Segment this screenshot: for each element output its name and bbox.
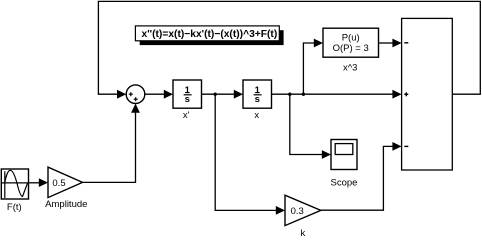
svg-text:0.3: 0.3	[291, 206, 304, 217]
svg-text:F(t): F(t)	[7, 202, 22, 213]
svg-text:Scope: Scope	[331, 177, 358, 188]
svg-text:x: x	[254, 110, 259, 121]
svg-text:x': x'	[183, 110, 190, 121]
svg-text:O(P) = 3: O(P) = 3	[333, 43, 369, 54]
svg-text:s: s	[255, 94, 260, 105]
svg-text:0.5: 0.5	[52, 178, 65, 189]
svg-text:x^3: x^3	[343, 62, 358, 73]
svg-text:Amplitude: Amplitude	[45, 199, 87, 210]
svg-text:x''(t)=x(t)−kx'(t)−(x(t))^3+F(: x''(t)=x(t)−kx'(t)−(x(t))^3+F(t)	[142, 29, 278, 40]
svg-text:s: s	[185, 94, 190, 105]
svg-text:k: k	[301, 228, 306, 238]
svg-text:P(u): P(u)	[342, 32, 360, 43]
